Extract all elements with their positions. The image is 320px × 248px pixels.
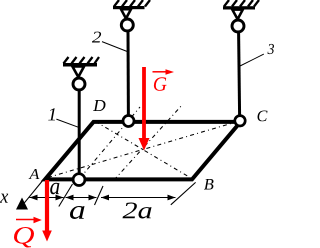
label 2	[92, 32, 101, 43]
support hatching S2	[114, 0, 150, 7]
ring 2 on DC	[123, 116, 134, 127]
ring 1 on AB	[73, 174, 85, 186]
label Q	[14, 227, 34, 248]
force G shaft	[142, 67, 146, 140]
ring1 extension line	[59, 184, 73, 207]
label B	[204, 179, 214, 190]
label x	[0, 194, 8, 203]
support eye circle S3	[232, 20, 244, 32]
dimension a segment ring1-E	[66, 197, 97, 199]
support eye circle S2	[121, 19, 133, 31]
dimension a segment A-ring1	[30, 197, 64, 199]
label a first	[50, 183, 59, 195]
construction line through E dash-dot	[114, 104, 183, 180]
diagonal AC dash-dot	[48, 122, 236, 178]
G vector bar	[153, 71, 168, 73]
label A	[29, 169, 40, 179]
label 3	[268, 44, 275, 54]
label 1	[48, 108, 55, 120]
leader line 2	[102, 42, 128, 52]
leader line 3	[240, 54, 264, 66]
B extension line	[171, 182, 196, 204]
support triangle S1	[73, 67, 85, 78]
E extension line	[95, 186, 104, 205]
support triangle S2	[121, 9, 131, 18]
Q vector bar	[16, 219, 35, 221]
force Q shaft	[45, 180, 49, 232]
plate ABCD	[45, 122, 241, 179]
support bar S1	[63, 63, 97, 67]
support triangle S3	[232, 10, 243, 20]
label 2a	[123, 203, 152, 219]
ring C	[235, 116, 245, 126]
construction line ring1-ring2 dash-dot	[80, 107, 140, 178]
label C	[258, 111, 268, 122]
dimension 2a segment E-B	[101, 197, 176, 199]
rod 3	[239, 33, 240, 117]
leader line 1	[56, 119, 78, 127]
support bar S2	[113, 6, 145, 9]
label G	[154, 77, 167, 91]
support hatching S1	[64, 57, 100, 64]
force G arrowhead	[139, 138, 150, 151]
x-axis line	[24, 180, 43, 203]
diagonal BD dash-dot	[96, 122, 191, 178]
support hatching S3	[224, 0, 259, 7]
support eye circle S1	[73, 78, 85, 90]
support bar S3	[223, 6, 255, 9]
label a second	[70, 206, 85, 219]
rod 2	[127, 32, 130, 118]
x-axis arrow triangle	[16, 198, 28, 210]
force Q arrowhead	[42, 231, 52, 242]
rod 1	[78, 91, 81, 176]
label D	[93, 100, 106, 111]
